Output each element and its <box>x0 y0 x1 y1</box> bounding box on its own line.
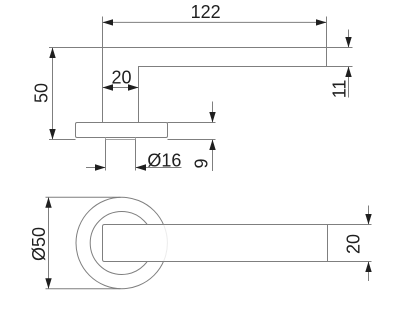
hidden outer circle arc through bar <box>76 197 167 288</box>
dimension 50: top arrow <box>49 48 55 59</box>
dimension Ø50: top arrow <box>45 197 51 208</box>
dimension 122: left arrow <box>103 19 114 25</box>
dimension 122: dimension line <box>103 21 327 23</box>
rosette inner circle <box>90 212 153 275</box>
dimension 9: lower arrow (points up) <box>209 140 215 151</box>
dimension 11: extension line top <box>327 47 353 49</box>
dimension 122: right arrow <box>316 19 327 25</box>
dimension 122: extension line right <box>326 17 328 48</box>
dimension 11: lower arrow (points up) <box>345 67 351 78</box>
svg-text:50: 50 <box>31 83 51 103</box>
rosette outer circle <box>76 197 167 288</box>
svg-text:20: 20 <box>343 234 363 254</box>
handle profile (grip bar + neck) <box>103 48 327 123</box>
svg-text:9: 9 <box>192 158 212 168</box>
dimension 20: upper leader line <box>368 206 370 225</box>
dimension 11: upper arrow (points down) <box>345 37 351 48</box>
dimension 20: lower leader line <box>368 262 370 282</box>
dimension 50: bottom arrow <box>49 129 55 140</box>
dimension 9: extension line bottom <box>168 139 216 141</box>
dimension 50: extension line bottom <box>49 139 76 141</box>
dimension Ø50: extension line top <box>46 196 121 198</box>
svg-text:11: 11 <box>329 80 349 99</box>
dimension 9: upper leader line <box>212 102 214 123</box>
dimension Ø16: left leader line <box>86 167 106 169</box>
dimension Ø16: left arrow (points right) <box>95 164 106 170</box>
dimension 20: left arrow <box>103 84 114 90</box>
rosette plate (edge view) <box>76 123 168 138</box>
lever bar (plan) <box>103 225 328 262</box>
svg-text:122: 122 <box>191 2 221 22</box>
svg-text:Ø16: Ø16 <box>147 151 181 171</box>
dimension 11: extension line bottom <box>327 66 353 68</box>
dimension 9: upper arrow (points down) <box>209 112 215 123</box>
dimension 50: extension line top <box>49 47 103 49</box>
dimension 11: upper leader line <box>348 30 350 48</box>
dimension 20: upper arrow (points down) <box>365 214 371 225</box>
dimension Ø16: extension line left <box>105 140 107 171</box>
dimension 9: extension line top <box>168 122 216 124</box>
dimension 122: extension line left <box>102 17 104 48</box>
dimension 50: dimension line <box>52 48 54 140</box>
dimension 20 (neck width): dimension line <box>103 87 139 89</box>
dimension Ø16: right arrow (points left) <box>136 164 147 170</box>
dimension Ø16: extension line right <box>135 140 137 171</box>
dimension 20 (bar width): extension line top <box>328 224 372 226</box>
dimension 11: lower leader line <box>348 67 350 98</box>
dimension Ø16: right leader line <box>136 167 182 169</box>
dimension Ø50: dimension line <box>48 197 50 288</box>
dimension 20: extension line bottom <box>328 261 372 263</box>
dimension 9: lower leader line <box>212 140 214 172</box>
collar below plate <box>106 138 136 140</box>
svg-text:20: 20 <box>111 68 131 88</box>
dimension Ø50: bottom arrow <box>45 278 51 289</box>
svg-text:Ø50: Ø50 <box>29 227 49 261</box>
dimension Ø50: extension line bottom <box>46 288 121 290</box>
dimension 20: right arrow <box>128 84 139 90</box>
dimension 20: lower arrow (points up) <box>365 262 371 273</box>
